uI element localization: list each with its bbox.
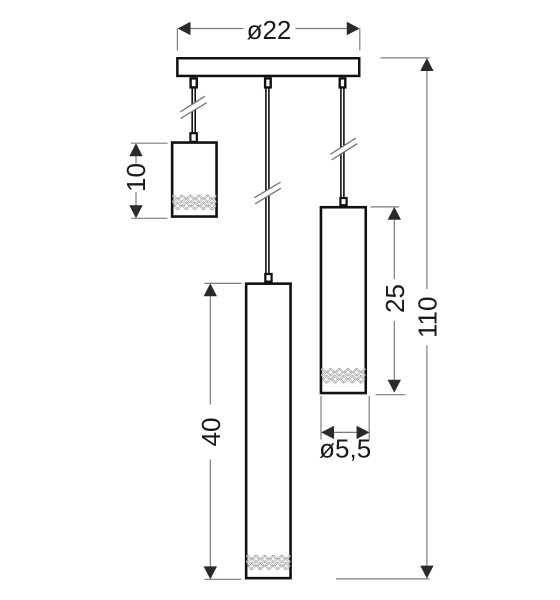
right shade cylinder bbox=[321, 207, 366, 393]
svg-text:25: 25 bbox=[380, 284, 410, 313]
svg-text:ø22: ø22 bbox=[247, 15, 292, 45]
tall shade crystal band bbox=[244, 556, 298, 569]
middle (tall) shade cylinder bbox=[246, 284, 290, 579]
left shade holder bbox=[190, 133, 196, 142]
right suspension wire bbox=[341, 88, 344, 199]
middle suspension connector (top) bbox=[265, 78, 271, 87]
dimension ø22 bbox=[177, 15, 359, 51]
middle suspension wire bbox=[266, 88, 269, 275]
right shade holder bbox=[340, 198, 346, 205]
svg-text:10: 10 bbox=[121, 163, 151, 192]
middle wire break symbol bbox=[254, 182, 281, 204]
svg-text:40: 40 bbox=[196, 418, 226, 447]
ceiling mount plate bbox=[177, 58, 359, 76]
left shade crystal band bbox=[170, 196, 224, 209]
left suspension connector (top) bbox=[191, 78, 197, 87]
right suspension connector (top) bbox=[340, 78, 346, 87]
left suspension wire bbox=[192, 88, 195, 133]
dimension 40 bbox=[196, 283, 242, 579]
dimension 110 bbox=[336, 58, 443, 579]
svg-text:110: 110 bbox=[413, 297, 443, 338]
right wire break symbol bbox=[330, 138, 357, 160]
left shade cylinder bbox=[172, 143, 216, 217]
middle shade holder bbox=[265, 274, 271, 282]
svg-text:ø5,5: ø5,5 bbox=[319, 433, 371, 463]
right shade crystal band bbox=[319, 369, 373, 382]
left wire break symbol bbox=[180, 96, 207, 118]
dimension 25 bbox=[371, 207, 410, 395]
dimension 10 bbox=[121, 143, 167, 218]
dimension ø5,5 bbox=[319, 396, 371, 463]
